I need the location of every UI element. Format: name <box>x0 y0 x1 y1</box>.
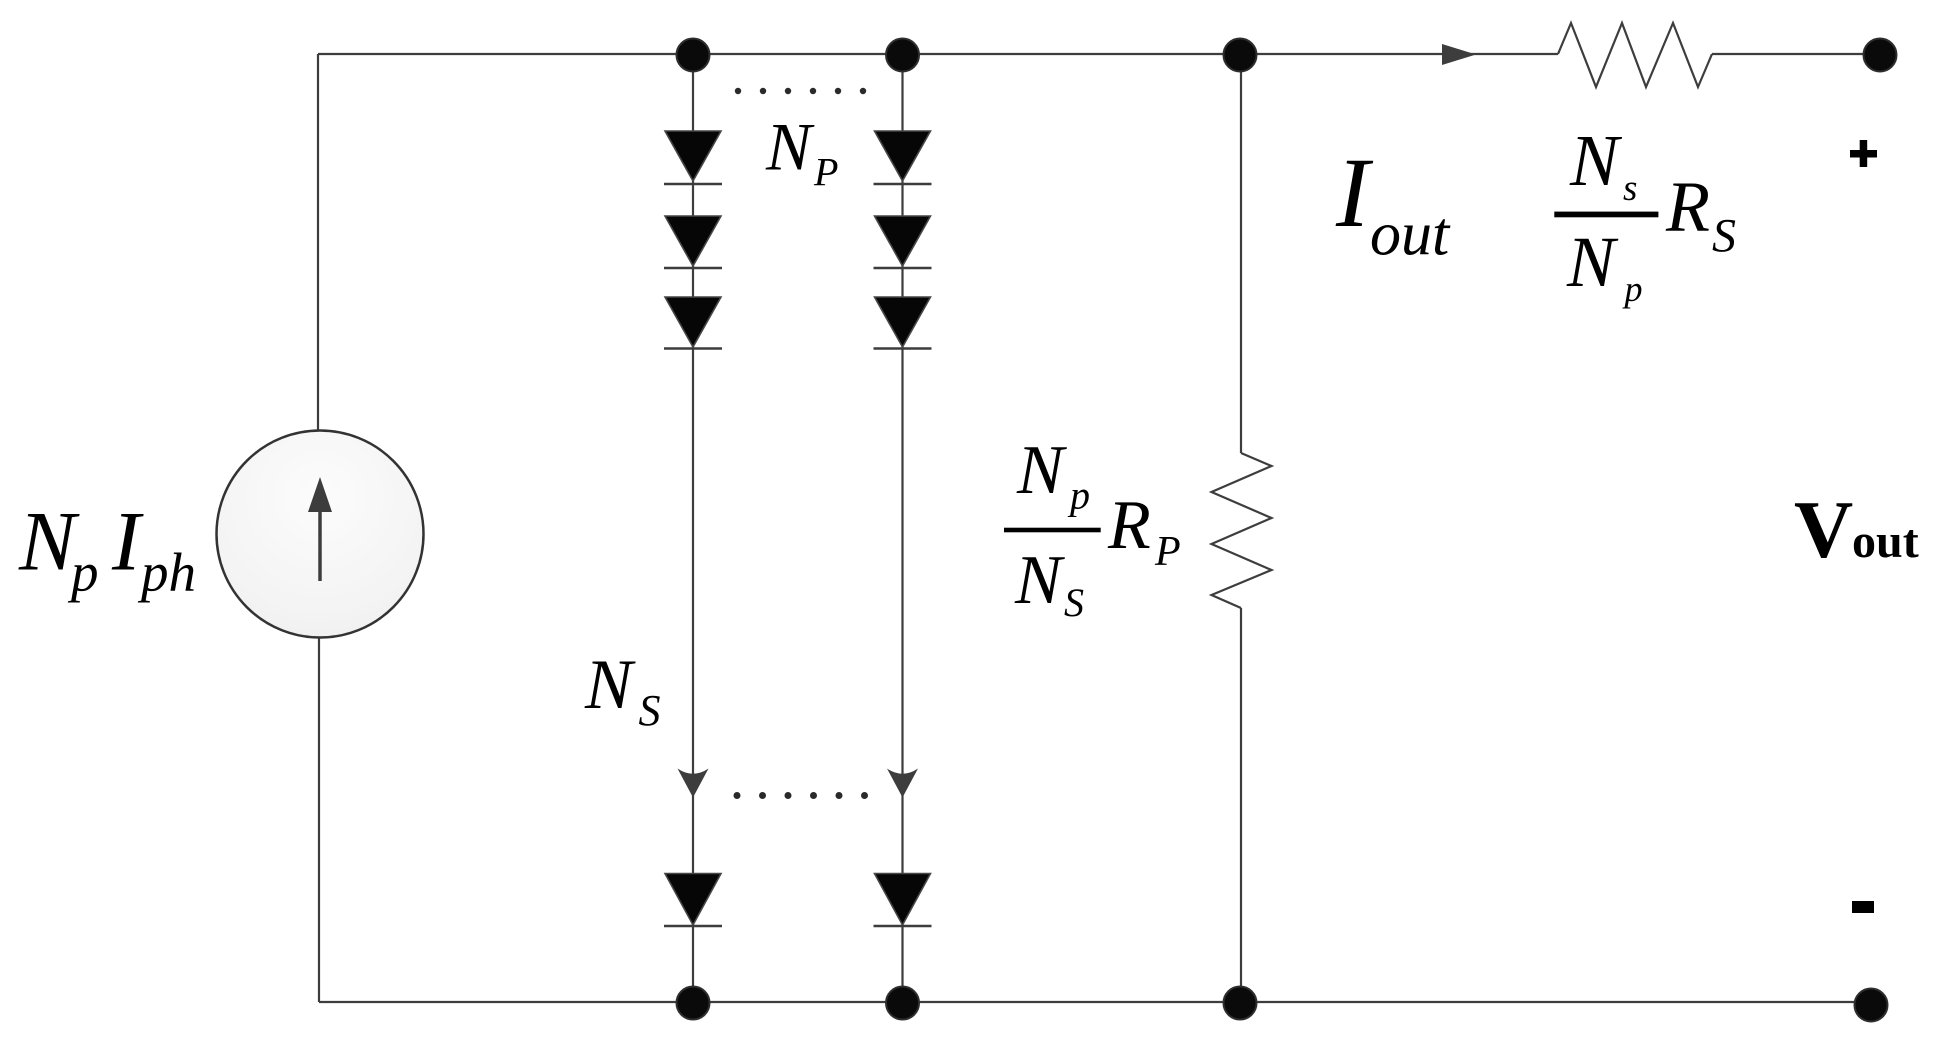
svg-text:S: S <box>1712 210 1736 263</box>
svg-text:p: p <box>1622 269 1643 309</box>
svg-text:N: N <box>1014 542 1065 619</box>
svg-text:R: R <box>1107 487 1151 564</box>
svg-text:N: N <box>765 108 815 184</box>
svg-text:s: s <box>1623 168 1637 209</box>
svg-text:N: N <box>584 646 636 724</box>
svg-text:ph: ph <box>137 542 196 603</box>
svg-text:p: p <box>1067 473 1090 518</box>
svg-text:I: I <box>111 494 144 588</box>
svg-text:S: S <box>1064 580 1084 625</box>
svg-text:S: S <box>639 686 661 735</box>
svg-text:N: N <box>1566 222 1619 302</box>
svg-text:out: out <box>1852 515 1919 568</box>
svg-text:I: I <box>1335 137 1374 248</box>
svg-text:N: N <box>1569 120 1623 201</box>
svg-text:out: out <box>1370 200 1451 268</box>
svg-text:p: p <box>67 542 99 603</box>
svg-text:P: P <box>813 150 838 195</box>
svg-text:R: R <box>1665 167 1710 247</box>
svg-text:P: P <box>1154 529 1181 575</box>
svg-text:V: V <box>1794 484 1853 575</box>
svg-text:N: N <box>1016 432 1067 509</box>
